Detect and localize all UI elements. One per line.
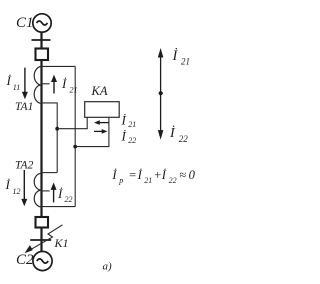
source C1 generator circle bbox=[33, 14, 51, 32]
wire outer loop right side bbox=[74, 66, 76, 206]
CT TA2 middle stub bbox=[42, 190, 50, 192]
svg-text:İ22: İ22 bbox=[121, 129, 137, 145]
wire TA1 bottom lead to inner loop bbox=[42, 103, 58, 173]
svg-text:İ21: İ21 bbox=[121, 112, 137, 129]
current arrow I22 into relay bbox=[94, 129, 108, 134]
wire node to relay right terminal bbox=[75, 117, 109, 146]
main line (protected feeder) bbox=[40, 60, 42, 217]
svg-text:İ11: İ11 bbox=[6, 73, 21, 92]
current arrow I11 bbox=[22, 68, 28, 100]
svg-text:K1: K1 bbox=[54, 236, 69, 250]
busbar tick bottom bbox=[30, 239, 51, 241]
node on outer loop bbox=[73, 145, 77, 149]
svg-text:21: 21 bbox=[181, 57, 190, 67]
current arrow I21 into relay bbox=[94, 120, 109, 125]
CT TA1 middle stub bbox=[42, 83, 50, 85]
svg-text:C1: C1 bbox=[16, 15, 34, 31]
svg-text:İp=İ21+İ22≈0: İp=İ21+İ22≈0 bbox=[111, 168, 195, 185]
svg-text:а): а) bbox=[103, 261, 113, 273]
svg-text:TA1: TA1 bbox=[15, 101, 33, 113]
relay KA box bbox=[85, 102, 120, 118]
CT TA2 winding arcs bbox=[34, 173, 41, 207]
wire node to relay left terminal bbox=[57, 117, 87, 128]
source C2 generator circle bbox=[33, 251, 52, 270]
wire TA2 top lead to inner loop bbox=[42, 172, 58, 174]
busbar tick top bbox=[32, 39, 51, 41]
breaker Q1 bbox=[36, 49, 49, 61]
current arrow I21 secondary bbox=[51, 75, 57, 94]
wire TA1 top lead to outer loop bbox=[42, 65, 76, 67]
breaker Q2 bbox=[36, 217, 49, 228]
svg-text:KA: KA bbox=[91, 84, 108, 98]
CT TA1 winding arcs bbox=[34, 67, 41, 104]
phasor origin node bbox=[159, 91, 163, 95]
svg-text:İ: İ bbox=[169, 125, 176, 141]
svg-text:İ22: İ22 bbox=[57, 186, 73, 204]
svg-text:İ: İ bbox=[172, 48, 179, 64]
fault K1 lightning arrow bbox=[25, 225, 63, 254]
svg-text:C2: C2 bbox=[16, 252, 34, 268]
svg-text:TA2: TA2 bbox=[15, 160, 34, 172]
phasor diagram axis with arrows I21 up and I22 down bbox=[158, 48, 164, 140]
node on inner loop bbox=[55, 127, 59, 131]
svg-text:İ12: İ12 bbox=[5, 177, 21, 196]
wire from C1 to breaker Q1 bbox=[40, 32, 42, 48]
current arrow I22 secondary bbox=[51, 183, 57, 203]
svg-text:22: 22 bbox=[179, 134, 189, 144]
wire TA2 bottom lead to outer loop bbox=[42, 206, 76, 208]
wire Q2 to C2 bbox=[40, 228, 42, 253]
current arrow I12 bbox=[21, 170, 27, 206]
